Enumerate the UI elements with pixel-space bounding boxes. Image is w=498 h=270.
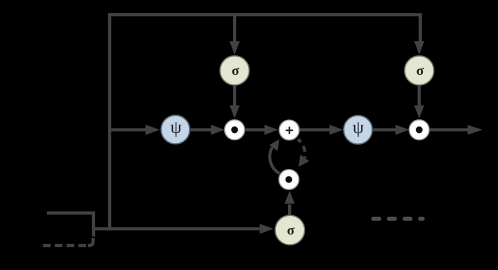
wire: S2 down to mult M2 <box>418 85 421 106</box>
wire: input dashed (cell state in) <box>43 244 86 247</box>
arrow into M3 from S3 <box>285 191 295 204</box>
plus node A1 <box>279 120 299 140</box>
wire: M1 to plus A1 <box>245 128 266 131</box>
loop arc dashed from A1 down to M3 <box>298 139 305 158</box>
wire: bus to psi P1 <box>110 128 147 131</box>
wire: bottom rail to S3 <box>94 227 261 230</box>
wire: S1 down to mult M1 <box>233 85 236 106</box>
wire: recurrent bus (left vertical, top horizontal, right drop) <box>110 15 421 229</box>
arrow into sigma S2 <box>414 41 424 55</box>
arrow into plus A1 from M1 <box>264 125 278 135</box>
multiply node M1 <box>225 120 245 140</box>
arrow into mult M1 from S1 <box>230 105 240 118</box>
loop arc solid from M3 up to A1 <box>270 147 280 173</box>
arrow into A1 from loop <box>269 139 279 151</box>
arrow into psi P1 <box>146 125 160 135</box>
arrow into M1 from P1 <box>211 125 225 135</box>
sigma gate S3 <box>275 215 304 244</box>
arrow into M3 from dashed loop <box>299 155 310 167</box>
sigma gate S1 <box>220 56 249 85</box>
wire: A1 to psi P2 <box>299 128 330 131</box>
psi unit P1 <box>161 115 190 144</box>
psi unit P2 <box>344 116 373 145</box>
wire: P2 to M2 <box>372 128 396 131</box>
multiply node M2 <box>409 120 429 140</box>
arrow into M2 from P2 <box>396 125 410 135</box>
arrow: output tip <box>468 125 483 135</box>
sigma gate S2 <box>405 56 434 85</box>
arrow into psi P2 <box>330 125 344 135</box>
arrow into sigma S1 <box>230 41 240 55</box>
ellipsis dashes (continuation to next cell) <box>373 217 422 221</box>
wire: output from M2 <box>429 128 468 131</box>
multiply node M3 <box>279 170 299 190</box>
wire: sigma S3 up to M3 <box>288 205 291 216</box>
arrow into mult M2 from S2 <box>414 105 424 118</box>
arrow into S3 <box>260 224 274 234</box>
wire: input dashed corner piece <box>88 238 93 246</box>
wire: branch down to sigma S1 <box>233 15 236 43</box>
wire: P1 to M1 <box>190 128 212 131</box>
wire: input solid (hidden state in) <box>47 213 94 237</box>
